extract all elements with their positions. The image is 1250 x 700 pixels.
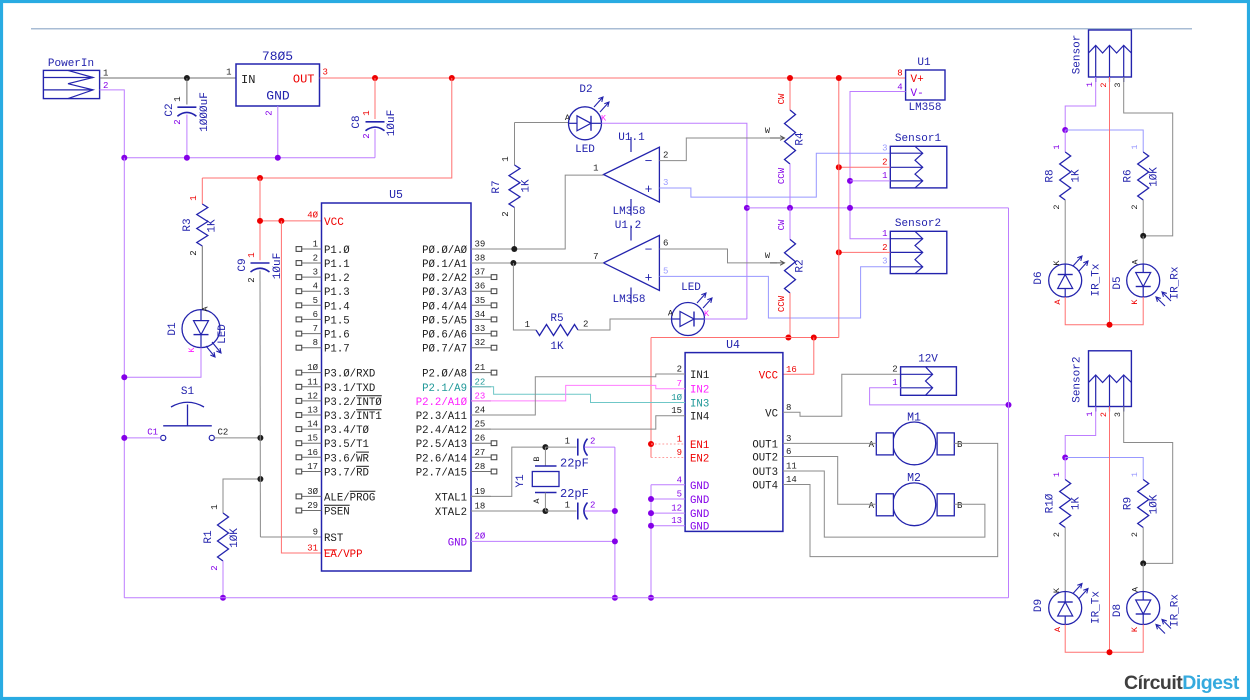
svg-text:78Ø5: 78Ø5 xyxy=(262,49,293,64)
wire LED2 cathode to GND xyxy=(705,318,747,320)
junction VCC C9 xyxy=(257,218,263,224)
svg-text:C9: C9 xyxy=(237,258,249,271)
svg-text:14: 14 xyxy=(786,475,797,485)
connector PowerIn xyxy=(43,70,99,98)
svg-text:4Ø: 4Ø xyxy=(307,211,318,221)
svg-text:R8: R8 xyxy=(1045,169,1057,182)
svg-text:6: 6 xyxy=(663,239,668,249)
svg-text:OUT3: OUT3 xyxy=(752,467,778,479)
wire RST to U5 xyxy=(260,536,321,538)
svg-text:28: 28 xyxy=(475,462,486,472)
svg-text:21: 21 xyxy=(475,363,486,373)
pin 7 P1.6 U5 xyxy=(302,333,322,335)
svg-text:C8: C8 xyxy=(351,115,363,128)
svg-text:PØ.3/A3: PØ.3/A3 xyxy=(422,287,467,299)
pin 11 P3.1/TXD U5 xyxy=(302,386,322,388)
pin 26 P2.5/A13 U5 xyxy=(471,442,491,444)
svg-text:32: 32 xyxy=(475,338,486,348)
svg-text:26: 26 xyxy=(475,434,486,444)
svg-text:A: A xyxy=(869,501,875,511)
pin 10 P3.0/RXD U5 xyxy=(302,372,322,374)
svg-text:GND: GND xyxy=(690,495,709,507)
svg-text:−: − xyxy=(645,243,653,258)
connector Sensor1 xyxy=(890,146,947,188)
capacitor C22a 22pF top xyxy=(545,446,576,448)
svg-text:3: 3 xyxy=(663,178,668,188)
pin 4 P1.3 U5 xyxy=(302,290,322,292)
svg-text:B: B xyxy=(957,501,963,511)
pin 18 XTAL2 U5 xyxy=(471,510,491,512)
svg-text:GND: GND xyxy=(266,89,290,104)
pin 37 P0.2/A2 U5 xyxy=(471,276,491,278)
svg-text:IN3: IN3 xyxy=(690,399,709,411)
LED D5 IR_Rx xyxy=(1127,264,1160,297)
resistor R6 10K xyxy=(1138,152,1149,200)
D5 receive arrows xyxy=(1156,297,1165,306)
junction RST net at S1 xyxy=(257,435,263,441)
svg-text:18: 18 xyxy=(475,502,486,512)
svg-text:15: 15 xyxy=(671,406,682,416)
svg-text:K: K xyxy=(601,114,607,124)
svg-text:Sensor1: Sensor1 xyxy=(895,133,942,145)
pin 28 P2.7/A15 U5 xyxy=(471,471,491,473)
svg-text:OUT2: OUT2 xyxy=(752,453,778,465)
svg-text:9: 9 xyxy=(677,448,682,458)
svg-text:P3.1/TXD: P3.1/TXD xyxy=(324,383,375,395)
svg-text:D6: D6 xyxy=(1033,271,1045,284)
wire P2.2 to IN2 magenta xyxy=(471,385,685,401)
wire PowerIn pin1 to 7805 IN xyxy=(100,77,236,79)
svg-text:VC: VC xyxy=(765,408,778,420)
svg-text:8: 8 xyxy=(786,403,791,413)
svg-text:XTAL2: XTAL2 xyxy=(435,507,467,519)
svg-text:1: 1 xyxy=(565,501,570,511)
svg-text:R5: R5 xyxy=(550,313,563,325)
svg-text:2: 2 xyxy=(247,277,257,282)
svg-text:V+: V+ xyxy=(911,74,924,86)
svg-text:5: 5 xyxy=(677,490,682,500)
svg-text:19: 19 xyxy=(475,487,486,497)
potentiometer R4 xyxy=(789,78,791,110)
svg-text:1: 1 xyxy=(103,69,108,79)
wire EA/VPP net xyxy=(281,221,321,553)
svg-text:R6: R6 xyxy=(1123,169,1135,182)
overline INT0 xyxy=(356,395,382,397)
svg-text:1: 1 xyxy=(226,68,231,78)
pin 17 P3.7/RD U5 xyxy=(302,471,322,473)
svg-text:PØ.2/A2: PØ.2/A2 xyxy=(422,273,467,285)
svg-text:35: 35 xyxy=(475,296,486,306)
svg-text:31: 31 xyxy=(307,544,318,554)
op-amp U1.2 xyxy=(604,235,660,290)
wire EN2 xyxy=(651,457,685,459)
svg-text:A: A xyxy=(869,440,875,450)
svg-text:2: 2 xyxy=(1099,412,1109,417)
svg-text:2: 2 xyxy=(590,501,595,511)
svg-text:CírcuitDigest: CírcuitDigest xyxy=(1124,672,1240,694)
svg-text:1ØØØuF: 1ØØØuF xyxy=(199,92,211,132)
resistor R5 1K xyxy=(513,263,536,330)
svg-text:7: 7 xyxy=(593,252,598,262)
wire P2.1 to IN3 teal xyxy=(471,387,685,403)
svg-text:A: A xyxy=(1131,586,1141,592)
wire xtal GND vertical xyxy=(614,447,616,598)
wire 12V pin1 to GND xyxy=(870,388,1009,405)
svg-text:1ØK: 1ØK xyxy=(229,528,241,548)
GND bottom rail xyxy=(124,597,1008,599)
LED2 emission arrows xyxy=(697,293,706,303)
svg-text:1: 1 xyxy=(1085,82,1095,87)
wire U5 GND20 xyxy=(471,540,615,542)
pin 25 P2.4/A12 U5 xyxy=(471,428,491,430)
svg-text:1ØK: 1ØK xyxy=(1149,167,1161,187)
svg-text:A: A xyxy=(1131,259,1141,265)
pin 16 P3.6/WR U5 xyxy=(302,456,322,458)
junction VCC at C9 column xyxy=(257,175,263,181)
svg-text:B: B xyxy=(957,440,963,450)
svg-text:−: − xyxy=(645,154,653,169)
R4 wiper arrow xyxy=(770,136,785,141)
junction R1 bottom GND rail xyxy=(220,595,226,601)
svg-text:A: A xyxy=(1053,299,1063,305)
pin 6 P1.5 U5 xyxy=(302,318,322,320)
junction GND5 xyxy=(648,496,654,502)
junction 12V GND right vertical xyxy=(1006,402,1012,408)
svg-text:1K: 1K xyxy=(1071,497,1083,511)
D2 emission arrows xyxy=(594,97,603,107)
svg-text:U5: U5 xyxy=(389,189,403,202)
svg-text:1: 1 xyxy=(1085,411,1095,416)
svg-text:39: 39 xyxy=(475,240,486,250)
svg-text:Sensor: Sensor xyxy=(1071,35,1083,75)
svg-text:GND: GND xyxy=(690,509,709,521)
wire VCC16 riser xyxy=(783,338,814,375)
IC U5 8051 body xyxy=(322,203,472,571)
crystal Y1 xyxy=(544,447,546,466)
LED D6 IR_Tx xyxy=(1049,264,1082,297)
svg-text:LM358: LM358 xyxy=(908,102,941,114)
svg-text:R1: R1 xyxy=(203,530,215,544)
svg-text:2: 2 xyxy=(1130,204,1140,209)
junction EN1 xyxy=(648,441,654,447)
svg-text:ALE/PROG: ALE/PROG xyxy=(324,492,375,504)
wire VCC vertical right xyxy=(838,78,840,338)
svg-text:W: W xyxy=(765,251,771,261)
svg-text:2: 2 xyxy=(501,211,511,216)
svg-text:PØ.5/A5: PØ.5/A5 xyxy=(422,315,467,327)
GND rail mid-right xyxy=(747,207,1009,209)
svg-text:1K: 1K xyxy=(1071,169,1083,183)
svg-text:IR_Tx: IR_Tx xyxy=(1091,263,1103,296)
svg-text:2: 2 xyxy=(583,320,588,330)
svg-text:1: 1 xyxy=(1052,144,1062,149)
svg-text:1: 1 xyxy=(677,435,682,445)
svg-text:GND: GND xyxy=(448,537,467,549)
svg-text:D8: D8 xyxy=(1112,604,1124,617)
svg-text:2: 2 xyxy=(882,243,887,253)
junction GND20 xyxy=(612,538,618,544)
junction R4 bottom GND xyxy=(787,205,793,211)
svg-text:PØ.1/A1: PØ.1/A1 xyxy=(422,259,467,271)
pin 35 P0.4/A4 U5 xyxy=(471,304,491,306)
svg-text:CW: CW xyxy=(777,93,787,104)
junction V- GND rail xyxy=(847,205,853,211)
svg-text:LM358: LM358 xyxy=(612,294,645,306)
junction Sensor1 pin2 xyxy=(836,164,842,170)
svg-text:P1.3: P1.3 xyxy=(324,287,350,299)
svg-text:14: 14 xyxy=(307,420,318,430)
svg-text:4: 4 xyxy=(677,475,682,485)
svg-text:IN: IN xyxy=(241,73,255,87)
svg-text:P2.1/A9: P2.1/A9 xyxy=(422,383,467,395)
svg-text:1: 1 xyxy=(593,164,598,174)
overline WR xyxy=(356,451,369,453)
wire Sensor2 pin2 rail xyxy=(1109,407,1111,653)
pin 13 P3.3/INT1 U5 xyxy=(302,414,322,416)
svg-text:37: 37 xyxy=(475,268,486,278)
wire GND right vertical xyxy=(1008,208,1010,598)
svg-text:13: 13 xyxy=(307,406,318,416)
svg-text:P3.4/TØ: P3.4/TØ xyxy=(324,425,369,437)
svg-text:RST: RST xyxy=(324,533,344,545)
svg-text:P2.3/A11: P2.3/A11 xyxy=(416,411,467,423)
junction V- sensor1 pin1 xyxy=(847,178,853,184)
resistor R10 1K xyxy=(1064,458,1066,480)
junction VCC vertical top xyxy=(836,75,842,81)
svg-text:P1.Ø: P1.Ø xyxy=(324,245,350,257)
wire D1 cathode to GND rail xyxy=(124,348,201,378)
svg-text:A: A xyxy=(532,498,542,504)
svg-text:1: 1 xyxy=(882,171,887,181)
wire Sensor1 pin2 VCC xyxy=(839,166,891,168)
connector Sensor xyxy=(1089,30,1132,77)
svg-text:R3: R3 xyxy=(182,218,194,231)
svg-text:P2.Ø/A8: P2.Ø/A8 xyxy=(422,369,467,381)
overline PSEN xyxy=(324,504,350,506)
svg-text:3: 3 xyxy=(786,434,791,444)
svg-text:P3.2/INTØ: P3.2/INTØ xyxy=(324,397,382,409)
svg-text:2: 2 xyxy=(362,133,372,138)
svg-text:1: 1 xyxy=(565,437,570,447)
svg-text:U1.2: U1.2 xyxy=(615,220,641,232)
wire Sensor pin2 rail xyxy=(1109,77,1111,325)
svg-text:1: 1 xyxy=(501,156,511,161)
wire Sensor2 pin1 to resistor divider xyxy=(1065,407,1096,458)
svg-text:2: 2 xyxy=(173,119,183,124)
overline EA xyxy=(324,549,337,551)
svg-text:1: 1 xyxy=(247,252,257,257)
svg-text:U1.1: U1.1 xyxy=(618,132,645,144)
LED D1 xyxy=(182,310,220,348)
svg-text:Y1: Y1 xyxy=(515,474,527,488)
svg-text:2: 2 xyxy=(892,365,897,375)
svg-text:LED: LED xyxy=(217,324,229,344)
svg-text:24: 24 xyxy=(475,406,486,416)
junction P0.1 R5 xyxy=(510,260,516,266)
svg-text:D9: D9 xyxy=(1033,599,1045,612)
svg-text:IN4: IN4 xyxy=(690,412,709,424)
svg-text:22pF: 22pF xyxy=(560,487,589,501)
svg-text:VCC: VCC xyxy=(324,217,344,229)
overline RD xyxy=(356,465,369,467)
pin 39 P0.0/A0 U5 xyxy=(471,248,491,250)
svg-text:P2.2/A1Ø: P2.2/A1Ø xyxy=(416,397,468,409)
svg-text:3: 3 xyxy=(882,144,887,154)
svg-text:PØ.4/A4: PØ.4/A4 xyxy=(422,301,467,313)
svg-text:A: A xyxy=(668,309,674,319)
svg-text:6: 6 xyxy=(313,310,318,320)
GND rail top-left xyxy=(124,157,375,159)
wire Sensor1 pin1 V- xyxy=(850,180,890,182)
svg-text:9: 9 xyxy=(313,528,318,538)
R2 wiper arrow xyxy=(770,261,785,266)
svg-text:P1.1: P1.1 xyxy=(324,259,350,271)
junction Sensor pin2 rail xyxy=(1107,322,1113,328)
D8 receive arrows xyxy=(1156,625,1165,634)
svg-text:1K: 1K xyxy=(521,179,533,193)
svg-text:1K: 1K xyxy=(550,341,564,353)
svg-text:1K: 1K xyxy=(207,219,219,233)
svg-text:A: A xyxy=(565,113,571,123)
wire EN VCC rail xyxy=(651,337,839,339)
pin 21 P2.0/A8 U5 xyxy=(471,372,491,374)
junction Sensor2 pin2 xyxy=(836,249,842,255)
LED D2 xyxy=(569,107,602,140)
junction R7 P0.0 xyxy=(511,246,517,252)
pin 23 P2.2/A10 U5 xyxy=(471,400,491,402)
svg-text:LM358: LM358 xyxy=(612,206,645,218)
connector 12V xyxy=(901,367,957,396)
svg-text:2: 2 xyxy=(189,250,199,255)
pin 32 P0.7/A7 U5 xyxy=(471,347,491,349)
svg-text:1: 1 xyxy=(210,504,220,509)
regulator 7805 U-block xyxy=(236,64,320,106)
svg-text:22pF: 22pF xyxy=(560,457,589,471)
svg-text:D5: D5 xyxy=(1112,276,1124,289)
svg-text:3: 3 xyxy=(323,68,328,78)
junction crystal bottom xyxy=(542,508,548,514)
svg-text:CCW: CCW xyxy=(777,167,787,184)
svg-text:36: 36 xyxy=(475,282,486,292)
IC U4 L293D body xyxy=(685,353,783,532)
svg-text:K: K xyxy=(1052,587,1062,593)
svg-text:C2: C2 xyxy=(164,103,176,116)
svg-text:XTAL1: XTAL1 xyxy=(435,492,467,504)
svg-text:IN2: IN2 xyxy=(690,385,709,397)
svg-text:13: 13 xyxy=(671,516,682,526)
svg-text:R7: R7 xyxy=(491,180,503,193)
wire Sensor pin1 to resistor divider xyxy=(1065,77,1096,130)
svg-text:P3.5/T1: P3.5/T1 xyxy=(324,439,369,451)
wire VCC branch to R3 and C9 xyxy=(202,78,451,178)
svg-text:38: 38 xyxy=(475,254,486,264)
junction S1 GND xyxy=(121,435,127,441)
svg-text:1Ø: 1Ø xyxy=(671,393,682,403)
wire node to R9 xyxy=(1065,458,1143,480)
svg-text:CW: CW xyxy=(777,219,787,230)
svg-text:CCW: CCW xyxy=(777,295,787,312)
svg-text:3: 3 xyxy=(313,268,318,278)
resistor R8 1K xyxy=(1064,130,1066,152)
wire S1 left to GND xyxy=(124,437,160,439)
svg-text:P3.6/WR: P3.6/WR xyxy=(324,453,369,465)
wire R7 to D2 anode xyxy=(515,122,569,124)
svg-text:A: A xyxy=(201,306,211,312)
svg-text:PØ.Ø/AØ: PØ.Ø/AØ xyxy=(422,245,467,257)
svg-text:C2: C2 xyxy=(218,428,229,438)
svg-text:2: 2 xyxy=(590,437,595,447)
svg-text:PowerIn: PowerIn xyxy=(48,58,94,70)
svg-text:P1.2: P1.2 xyxy=(324,273,350,285)
svg-text:6: 6 xyxy=(786,447,791,457)
pin 3 P1.2 U5 xyxy=(302,276,322,278)
junction R4 top VCC xyxy=(787,75,793,81)
svg-text:12: 12 xyxy=(671,504,682,514)
svg-text:2: 2 xyxy=(1099,82,1109,87)
svg-text:P1.6: P1.6 xyxy=(324,330,350,342)
svg-text:4: 4 xyxy=(313,282,318,292)
pin 1 P1.0 U5 xyxy=(302,248,322,250)
svg-text:+: + xyxy=(645,271,653,286)
pin 27 P2.6/A14 U5 xyxy=(471,456,491,458)
junction Sensor2 pin1 node xyxy=(1062,455,1068,461)
capacitor C9 10uF xyxy=(259,178,261,260)
junction xtal GND rail xyxy=(612,595,618,601)
svg-text:P3.Ø/RXD: P3.Ø/RXD xyxy=(324,369,375,381)
svg-text:OUT1: OUT1 xyxy=(752,439,778,451)
junction GND13 xyxy=(648,523,654,529)
resistor R3 1K xyxy=(201,178,203,204)
svg-text:2: 2 xyxy=(1130,532,1140,537)
svg-text:OUT: OUT xyxy=(293,73,315,87)
svg-text:IN1: IN1 xyxy=(690,370,709,382)
wire VCC to U5 pin40 xyxy=(260,220,322,222)
junction Sensor pin1 node xyxy=(1062,127,1068,133)
svg-text:EA/VPP: EA/VPP xyxy=(324,549,362,561)
svg-text:1: 1 xyxy=(1052,472,1062,477)
svg-text:16: 16 xyxy=(786,365,797,375)
svg-text:R9: R9 xyxy=(1123,497,1135,510)
junction D1 GND xyxy=(121,374,127,380)
svg-text:GND: GND xyxy=(690,481,709,493)
junction C8 top xyxy=(372,75,378,81)
svg-text:23: 23 xyxy=(475,391,486,401)
svg-text:P2.7/A15: P2.7/A15 xyxy=(416,468,467,480)
wire Sensor2 pin3 to D8 xyxy=(1124,407,1173,564)
IC U1 LM358 power xyxy=(906,70,945,100)
svg-text:Sensor2: Sensor2 xyxy=(1071,357,1083,403)
title separator line xyxy=(31,28,1192,30)
wire Sensor pin3 to D5 xyxy=(1124,77,1173,236)
pin 29 PSEN U5 xyxy=(302,510,322,512)
svg-text:EN2: EN2 xyxy=(690,454,709,466)
svg-text:3: 3 xyxy=(882,257,887,267)
svg-text:VCC: VCC xyxy=(759,370,778,382)
svg-text:LED: LED xyxy=(575,144,595,156)
junction GND rail left xyxy=(121,155,127,161)
svg-text:P1.5: P1.5 xyxy=(324,315,350,327)
svg-text:1: 1 xyxy=(362,110,372,115)
pin 24 P2.3/A11 U5 xyxy=(471,414,491,416)
svg-text:12V: 12V xyxy=(918,354,938,366)
svg-text:K: K xyxy=(187,347,197,353)
capacitor C8 10uF xyxy=(374,78,376,119)
wire PowerIn pin2 to GND rail xyxy=(100,90,125,158)
svg-text:1: 1 xyxy=(892,378,897,388)
junction C2 top xyxy=(184,75,190,81)
wire M1 B to OUT4 xyxy=(783,443,998,556)
svg-text:1: 1 xyxy=(1130,472,1140,477)
